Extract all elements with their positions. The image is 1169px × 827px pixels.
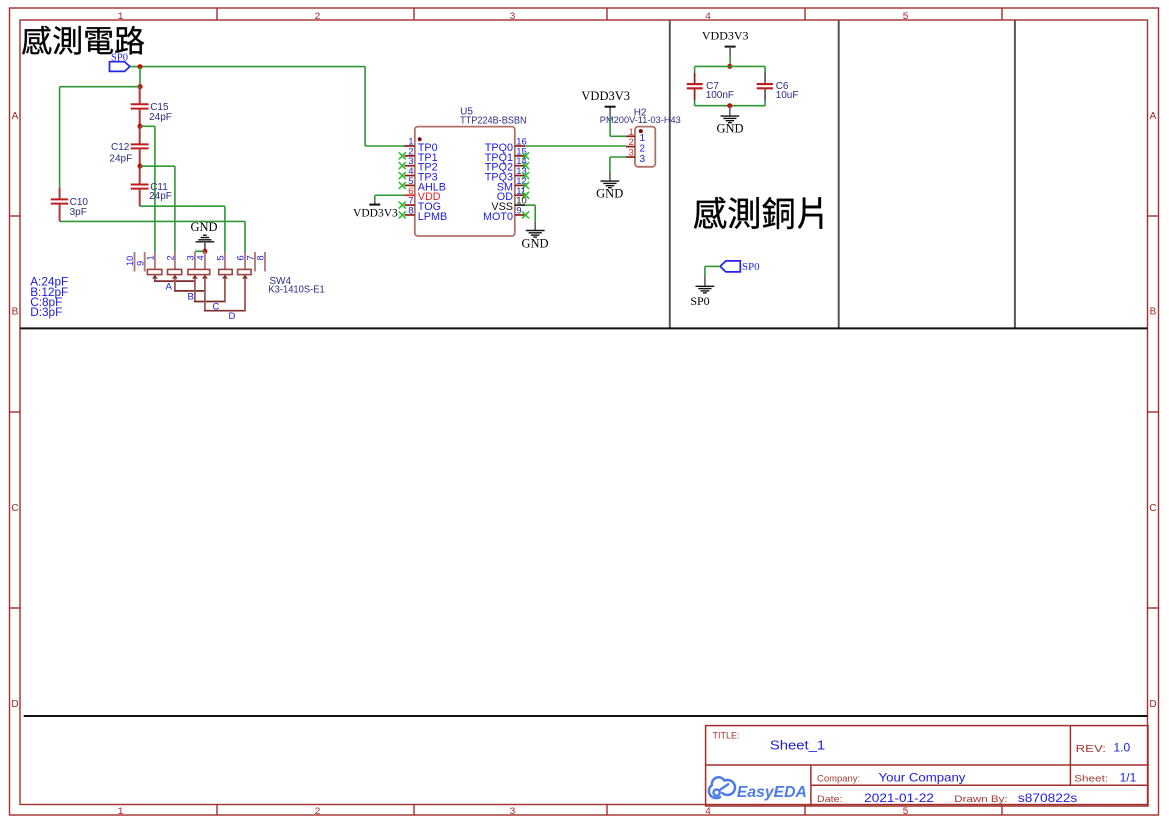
SW4 pin 5 bbox=[216, 252, 226, 270]
svg-text:3: 3 bbox=[186, 255, 196, 260]
U5 pin 11 (OD) bbox=[497, 186, 529, 203]
SW4 switch body B bbox=[168, 269, 182, 274]
svg-text:PM200V-11-03-H43: PM200V-11-03-H43 bbox=[600, 115, 681, 126]
svg-text:1: 1 bbox=[146, 255, 156, 260]
net port SP0 (sense pad) bbox=[720, 261, 760, 273]
capacitor C15 bbox=[131, 87, 172, 127]
U5 pin 9 (MOT0) bbox=[483, 205, 529, 222]
title block bbox=[706, 726, 1148, 806]
wire SP0 down bbox=[139, 67, 141, 87]
svg-text:8: 8 bbox=[256, 255, 266, 260]
svg-text:A: A bbox=[12, 111, 19, 122]
svg-text:SP0: SP0 bbox=[742, 261, 760, 273]
title block texts bbox=[713, 731, 1137, 805]
svg-text:GND: GND bbox=[190, 220, 217, 234]
svg-text:C: C bbox=[11, 503, 18, 514]
svg-text:D: D bbox=[1149, 699, 1156, 710]
SW4 arrow pin 3 bbox=[192, 275, 198, 279]
svg-text:3: 3 bbox=[509, 12, 515, 23]
svg-text:Sheet:: Sheet: bbox=[1074, 773, 1108, 784]
svg-text:1: 1 bbox=[117, 807, 123, 818]
svg-text:4: 4 bbox=[705, 807, 711, 818]
SW4 link wire C bbox=[194, 278, 226, 313]
svg-text:4: 4 bbox=[196, 255, 206, 260]
capacitor C12 bbox=[109, 126, 148, 166]
EasyEDA logo bbox=[709, 777, 807, 801]
svg-text:GND: GND bbox=[596, 187, 623, 201]
svg-text:1/1: 1/1 bbox=[1120, 770, 1137, 784]
section divider horizontal top bbox=[20, 327, 1148, 329]
svg-text:3: 3 bbox=[640, 154, 646, 165]
junction bbox=[138, 84, 143, 89]
svg-text:24pF: 24pF bbox=[149, 112, 172, 123]
SW4 refdes bbox=[268, 276, 325, 295]
ground GND at SW4 bbox=[190, 220, 217, 252]
svg-text:5: 5 bbox=[216, 255, 226, 260]
ground GND at U5 pin10 bbox=[521, 205, 548, 251]
svg-text:2: 2 bbox=[640, 144, 646, 155]
SW4 pin 6 bbox=[236, 252, 246, 270]
U5 pin 14 (TPQ2) bbox=[485, 156, 529, 173]
svg-text:8: 8 bbox=[408, 205, 413, 216]
SW4 pin 2 bbox=[166, 252, 176, 270]
svg-text:2: 2 bbox=[166, 255, 176, 260]
svg-text:5: 5 bbox=[902, 807, 908, 818]
ground GND at C7/C6 bbox=[716, 106, 743, 136]
svg-text:10: 10 bbox=[125, 256, 135, 266]
wire C15 to SW pin1 bbox=[140, 126, 155, 252]
capacitor C11 bbox=[131, 166, 172, 206]
svg-text:2: 2 bbox=[314, 12, 320, 23]
svg-text:7: 7 bbox=[246, 255, 256, 260]
junction bbox=[138, 64, 143, 69]
svg-text:C12: C12 bbox=[111, 142, 130, 153]
svg-text:REV:: REV: bbox=[1076, 743, 1106, 755]
junction bbox=[202, 249, 207, 254]
svg-text:10uF: 10uF bbox=[776, 90, 799, 101]
svg-text:s870822s: s870822s bbox=[1018, 791, 1077, 805]
svg-text:B: B bbox=[1150, 307, 1157, 318]
connector H2 PM200V-11-03-H43 bbox=[600, 107, 681, 167]
ground GND at H2 pin3 bbox=[596, 157, 626, 201]
svg-text:24pF: 24pF bbox=[149, 191, 172, 202]
svg-text:1: 1 bbox=[117, 12, 123, 23]
U5 pin 12 (SM) bbox=[497, 176, 529, 193]
svg-text:VDD3V3: VDD3V3 bbox=[702, 29, 749, 43]
U5 pin 4 (TP3) bbox=[399, 166, 438, 183]
svg-text:6: 6 bbox=[236, 255, 246, 260]
svg-text:C: C bbox=[1149, 503, 1156, 514]
svg-text:MOT0: MOT0 bbox=[483, 211, 513, 223]
IC U5 TTP224B-BSBN bbox=[415, 107, 527, 237]
svg-text:D: D bbox=[11, 699, 18, 710]
SW4 switch body F bbox=[238, 269, 252, 274]
svg-text:Your Company: Your Company bbox=[879, 770, 966, 784]
svg-text:D: D bbox=[229, 311, 236, 322]
SW4 link wire A bbox=[154, 278, 196, 293]
capacitor C10 bbox=[51, 188, 89, 222]
U5 pin 5 (AHLB) bbox=[399, 176, 446, 193]
svg-text:K3-1410S-E1: K3-1410S-E1 bbox=[268, 284, 325, 295]
SW4 pin 8 bbox=[256, 252, 266, 272]
svg-text:SP0: SP0 bbox=[690, 294, 709, 308]
SW4 arrow pin 1 bbox=[152, 275, 158, 279]
wire GND to SW pin3 bbox=[195, 250, 205, 252]
section divider vertical 3 bbox=[1014, 20, 1016, 328]
svg-text:Sheet_1: Sheet_1 bbox=[770, 737, 825, 752]
svg-text:A: A bbox=[1150, 111, 1157, 122]
SW4 arrow pin 2 bbox=[172, 275, 178, 279]
SW4 pin 9 bbox=[135, 252, 145, 272]
capacitor C6 bbox=[757, 66, 799, 105]
junction bbox=[138, 164, 143, 169]
U5 pin 1 (TP0) bbox=[405, 137, 438, 154]
text capacitance table bbox=[30, 275, 68, 319]
svg-text:GND: GND bbox=[716, 122, 743, 136]
svg-text:1.0: 1.0 bbox=[1114, 741, 1131, 755]
svg-text:VDD3V3: VDD3V3 bbox=[581, 89, 630, 103]
power flag VDD3V3 at U5 pin6 bbox=[353, 195, 404, 219]
wire bottom rail bbox=[695, 105, 766, 107]
svg-text:Date:: Date: bbox=[817, 794, 843, 805]
svg-text:TITLE:: TITLE: bbox=[713, 731, 740, 741]
SW4 pin 10 bbox=[125, 252, 135, 272]
SW4 pin 7 bbox=[246, 252, 256, 272]
svg-text:Drawn By:: Drawn By: bbox=[954, 794, 1007, 805]
SW4 arrow pin 5 bbox=[222, 275, 228, 279]
switch SW4 K3-1410S-E1 bbox=[125, 252, 325, 322]
capacitor C7 bbox=[687, 66, 734, 105]
SW4 arrow pin 4 bbox=[202, 275, 208, 279]
wire C12 to SW pin2 bbox=[140, 166, 175, 252]
svg-text:TTP224B-BSBN: TTP224B-BSBN bbox=[460, 116, 526, 127]
junction bbox=[727, 103, 732, 108]
net port SP0 ground-style symbol bbox=[690, 276, 714, 308]
svg-text:4: 4 bbox=[705, 12, 711, 23]
svg-text:VDD3V3: VDD3V3 bbox=[353, 208, 398, 220]
U5 pin 15 (TPQ1) bbox=[485, 146, 529, 163]
U5 pin 13 (TPQ3) bbox=[485, 166, 529, 183]
wire top rail bbox=[695, 65, 766, 67]
U5 pin 2 (TP1) bbox=[399, 146, 438, 163]
SW4 pin 4 bbox=[196, 252, 206, 270]
svg-text:2: 2 bbox=[629, 137, 634, 148]
svg-text:3: 3 bbox=[509, 807, 515, 818]
junction bbox=[138, 124, 143, 129]
SW4 arrow pin 6 bbox=[242, 275, 248, 279]
U5 pin 6 (VDD) bbox=[405, 186, 441, 203]
text 感測電路 bbox=[22, 26, 144, 55]
wire SP0 pad bbox=[705, 266, 720, 275]
SW4 switch body A bbox=[147, 269, 161, 274]
svg-text:GND: GND bbox=[521, 237, 548, 251]
section divider horizontal bottom bbox=[24, 715, 1148, 717]
SW4 link wire D bbox=[204, 278, 246, 322]
wire SP0 to U5 pin1 bbox=[130, 67, 405, 146]
svg-text:EasyEDA: EasyEDA bbox=[737, 784, 807, 801]
SW4 pin 1 bbox=[146, 252, 156, 270]
svg-text:9: 9 bbox=[135, 261, 145, 266]
svg-text:24pF: 24pF bbox=[109, 154, 132, 165]
net port SP0 bbox=[110, 52, 130, 71]
svg-text:D:3pF: D:3pF bbox=[30, 305, 62, 319]
H2 pin 3 bbox=[626, 148, 646, 165]
H2 pin 2 bbox=[626, 137, 646, 154]
wire C11 to SW pin5 bbox=[140, 206, 225, 252]
power flag VDD3V3 at C7/C6 bbox=[702, 29, 749, 67]
svg-text:B: B bbox=[188, 292, 194, 303]
section divider vertical 1 bbox=[669, 20, 671, 328]
U5 pin 10 (VSS) bbox=[491, 196, 526, 213]
svg-text:100nF: 100nF bbox=[706, 90, 734, 101]
svg-text:SP0: SP0 bbox=[111, 52, 128, 63]
svg-text:Company:: Company: bbox=[817, 773, 860, 784]
H2 pin 1 bbox=[626, 127, 646, 144]
U5 pin 8 (LPMB) bbox=[399, 205, 447, 222]
power flag VDD3V3 at H2 pin1 bbox=[581, 89, 630, 136]
wire C10 to SW pin6 bbox=[60, 221, 245, 252]
svg-text:3: 3 bbox=[629, 148, 634, 159]
svg-text:A: A bbox=[166, 281, 173, 292]
SW4 switch body C/D bbox=[188, 269, 210, 274]
svg-text:3pF: 3pF bbox=[70, 207, 87, 218]
U5 pin 16 (TPQ0) bbox=[485, 137, 527, 154]
svg-text:9: 9 bbox=[516, 205, 521, 216]
SW4 switch body E bbox=[219, 269, 233, 274]
text 感測銅片 bbox=[694, 197, 822, 229]
wire TPQ0 to H2 pin2 bbox=[525, 145, 626, 147]
junction bbox=[727, 64, 732, 69]
U5 pin 3 (TP2) bbox=[399, 156, 438, 173]
U5 pin 7 (TOG) bbox=[399, 196, 441, 213]
SW4 pin 3 bbox=[186, 252, 196, 270]
svg-text:2: 2 bbox=[314, 807, 320, 818]
section divider vertical 2 bbox=[838, 20, 840, 328]
wire branch to C10 bbox=[60, 87, 140, 188]
svg-text:B: B bbox=[12, 307, 19, 318]
svg-text:5: 5 bbox=[902, 12, 908, 23]
svg-text:2021-01-22: 2021-01-22 bbox=[864, 791, 934, 805]
SW4 link wire B bbox=[174, 278, 206, 303]
svg-text:LPMB: LPMB bbox=[418, 211, 447, 223]
